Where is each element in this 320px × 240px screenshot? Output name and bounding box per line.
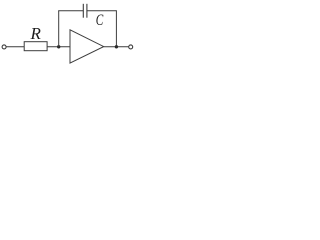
- resistor R1 body: [24, 42, 47, 51]
- node junction input: [57, 45, 60, 48]
- wire input terminal to resistor: [6, 46, 24, 48]
- wire op-amp output to output terminal: [104, 46, 129, 48]
- svg-text:R: R: [30, 24, 42, 43]
- wire feedback right vertical: [115, 10, 117, 47]
- wire resistor to op-amp input: [47, 46, 70, 48]
- op-amp U1: [70, 30, 104, 63]
- svg-text:C: C: [96, 12, 104, 29]
- wire feedback top left: [58, 10, 83, 12]
- capacitor C1 right plate: [86, 4, 88, 18]
- output terminal (right): [129, 45, 133, 49]
- wire feedback top right: [87, 10, 117, 12]
- node junction output: [115, 45, 118, 48]
- capacitor C1 left plate: [82, 4, 84, 18]
- input terminal (left): [2, 45, 6, 49]
- wire feedback left vertical: [58, 11, 60, 47]
